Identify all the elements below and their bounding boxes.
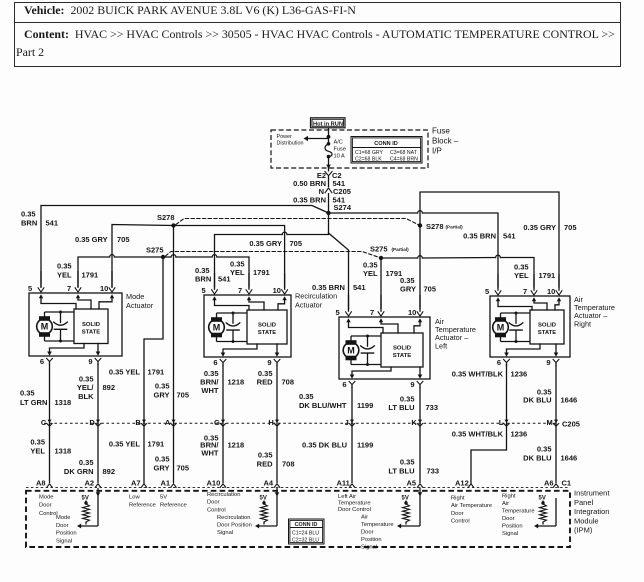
solid state module Recirculation Actuator U2 (247, 310, 287, 344)
svg-text:Control: Control (207, 507, 226, 513)
svg-text:GRY: GRY (154, 464, 170, 473)
svg-text:S274: S274 (334, 203, 352, 212)
connector N / C205 symbol (319, 187, 351, 196)
label 0.35 YEL 1791 (AT-Left pin 7) (363, 261, 402, 279)
svg-text:C2=32 BLU: C2=32 BLU (292, 538, 319, 544)
svg-text:STATE: STATE (538, 330, 557, 336)
IPM dashed box (26, 491, 570, 547)
svg-text:1791: 1791 (386, 269, 403, 278)
svg-text:Door: Door (39, 503, 52, 509)
svg-text:Actuator: Actuator (295, 300, 323, 309)
svg-text:Recirculation: Recirculation (207, 492, 241, 498)
svg-text:STATE: STATE (393, 353, 412, 359)
svg-text:C1=68 GRY: C1=68 GRY (355, 150, 384, 156)
motor supply rails Air Temperature Actuator - Left U3 (351, 336, 381, 365)
IPM connector face dashed line (26, 486, 570, 488)
labels wire M below C205 (523, 445, 577, 463)
connector C205 cavity L (499, 418, 509, 427)
pin 5 of Air Temperature Actuator - Right U4 (485, 274, 501, 301)
connector C205 cavity H (268, 418, 279, 427)
wire M AT-Right pin9 to IPM A6 (555, 365, 557, 483)
actuator box Recirculation Actuator U2 (204, 295, 291, 357)
conn id table (IPM) (289, 519, 325, 544)
svg-text:Recirculation: Recirculation (295, 292, 337, 301)
wire from Hot in RUN into fuse block (327, 128, 331, 144)
pin 9 of Air Temperature Actuator - Left U3 (410, 375, 423, 390)
svg-text:A4: A4 (264, 479, 274, 488)
svg-text:(Partial): (Partial) (446, 225, 464, 230)
pin 6 of Air Temperature Actuator - Right U4 (497, 353, 510, 368)
wire K AT-Left pin9 to IPM A5 (419, 387, 421, 483)
power distribution arrow (304, 136, 329, 141)
svg-text:Temperature: Temperature (502, 509, 535, 515)
svg-text:Air Temperature: Air Temperature (451, 503, 492, 509)
capacitor Mode Actuator U1 (54, 311, 68, 343)
svg-text:9: 9 (267, 358, 271, 367)
svg-text:0.35: 0.35 (258, 451, 273, 460)
svg-text:YEL: YEL (57, 271, 72, 280)
IPM pin A10 (207, 479, 226, 488)
svg-text:SOLID: SOLID (538, 323, 556, 329)
wire L AT-Right pin6 to IPM A12 (471, 365, 507, 483)
svg-text:0.35: 0.35 (299, 392, 314, 401)
wires solid state to bottom pins Mode Actuator U1 (50, 344, 99, 353)
IPM function label at 361 (361, 515, 394, 551)
svg-text:7: 7 (238, 286, 242, 295)
svg-text:5: 5 (202, 286, 206, 295)
labels wire L above C205 (452, 370, 527, 379)
capacitor Air Temperature Actuator - Left U3 (361, 335, 375, 367)
splice S278 (157, 213, 176, 228)
labels wire L below C205 (452, 430, 527, 439)
svg-text:Fuse: Fuse (432, 127, 450, 136)
svg-text:GRY: GRY (400, 285, 416, 294)
svg-text:BLK: BLK (78, 392, 94, 401)
svg-text:(IPM): (IPM) (574, 526, 593, 535)
wire GRY 705 S278 to Mode pin 10 (112, 225, 174, 288)
label Mode Actuator U1 (126, 292, 154, 310)
svg-text:0.35 YEL: 0.35 YEL (109, 368, 141, 377)
svg-text:Signal: Signal (502, 531, 518, 537)
splice S278 (Partial) (418, 222, 463, 231)
svg-text:YEL: YEL (30, 447, 45, 456)
svg-text:6: 6 (213, 358, 217, 367)
svg-text:K: K (411, 418, 417, 427)
svg-text:SOLID: SOLID (393, 346, 411, 352)
IPM pin A7 (131, 479, 147, 488)
svg-text:10: 10 (100, 284, 108, 293)
wire G Recirculation pin6 to IPM A10 (222, 365, 224, 483)
svg-text:Position: Position (502, 524, 523, 530)
svg-text:S278: S278 (157, 213, 175, 222)
svg-text:5V: 5V (82, 496, 89, 502)
svg-text:G: G (214, 418, 220, 427)
svg-text:705: 705 (177, 464, 190, 473)
svg-text:YEL: YEL (230, 268, 245, 277)
svg-text:5V: 5V (402, 496, 409, 502)
svg-text:STATE: STATE (82, 329, 101, 335)
svg-text:Control: Control (39, 511, 58, 517)
labels wire J above C205 (299, 392, 373, 410)
pin 7 of Mode Actuator U1 (67, 271, 81, 298)
connector C205 cavity G (214, 418, 226, 427)
svg-text:1646: 1646 (561, 396, 578, 405)
connector C205 cavity K (411, 418, 422, 427)
actuator box Air Temperature Actuator - Left U3 (339, 317, 430, 379)
svg-text:YEL: YEL (363, 269, 378, 278)
svg-text:(Partial): (Partial) (392, 247, 410, 252)
wire D Mode pin9 to IPM A2 (97, 364, 99, 483)
resistor 5V R-A2 mode position (82, 496, 90, 525)
label 0.50 BRN 541 (293, 179, 345, 188)
actuator box Mode Actuator U1 (29, 293, 122, 356)
label Air Temperature Actuator - Left U3 (435, 317, 476, 350)
motor M Recirculation Actuator U2 (209, 313, 225, 342)
wires pins to solid state Recirculation Actuator U2 (215, 300, 285, 310)
svg-text:708: 708 (282, 460, 295, 469)
labels wire D above C205 (77, 375, 115, 402)
connector C205 dashed line (44, 422, 556, 424)
motor supply rails Mode Actuator U1 (45, 312, 75, 341)
svg-text:M: M (497, 322, 505, 332)
svg-text:Temperature: Temperature (361, 522, 394, 528)
wires solid state to bottom pins Recirculation Actuator U2 (223, 344, 277, 353)
svg-text:541: 541 (218, 275, 231, 284)
labels wire H below C205 (257, 451, 295, 469)
motor supply rails Recirculation Actuator U2 (217, 313, 248, 342)
resistor 5V R-A4 recirc position (260, 496, 268, 525)
svg-text:Right: Right (502, 494, 516, 500)
svg-text:Integration: Integration (574, 507, 609, 516)
svg-text:SOLID: SOLID (258, 323, 276, 329)
svg-text:C: C (41, 418, 47, 427)
svg-text:708: 708 (282, 378, 295, 387)
svg-text:0.35 YEL: 0.35 YEL (109, 440, 141, 449)
svg-text:1791: 1791 (539, 271, 556, 280)
svg-text:10: 10 (547, 287, 555, 296)
label 0.35 BRN 541 (Mode pin 5) (21, 210, 58, 228)
labels wire C below C205 (30, 438, 71, 456)
labels wire G above C205 (200, 369, 244, 395)
svg-text:Module: Module (574, 516, 599, 525)
pin 5 of Mode Actuator U1 (28, 271, 44, 298)
svg-text:Right: Right (574, 319, 591, 328)
svg-text:RED: RED (257, 378, 273, 387)
labels wire K above C205 (388, 395, 438, 413)
svg-text:Hot in RUN: Hot in RUN (313, 121, 343, 127)
svg-text:C2=68 BLK: C2=68 BLK (355, 156, 382, 162)
svg-text:0.35 GRY: 0.35 GRY (523, 223, 556, 232)
svg-text:1218: 1218 (228, 378, 245, 387)
svg-text:A: A (165, 418, 171, 427)
wire BRN 541 branch to AT-Right pin 5 (329, 211, 499, 287)
svg-text:6: 6 (342, 380, 346, 389)
label Recirculation Actuator U2 (295, 292, 337, 310)
fuse block dashed box (271, 130, 428, 168)
svg-text:C1: C1 (562, 479, 572, 488)
svg-text:Actuator: Actuator (126, 301, 154, 310)
label Air Temperature Actuator - Right U4 (574, 295, 615, 328)
pin 10 of Air Temperature Actuator - Right U4 (547, 274, 562, 301)
svg-text:M: M (213, 322, 221, 332)
pin 7 of Recirculation Actuator U2 (238, 273, 252, 300)
svg-text:DK GRN: DK GRN (64, 467, 94, 476)
fuse block label Fuse Block - I/P (432, 127, 459, 156)
svg-text:705: 705 (290, 239, 303, 248)
wire YEL 1791 S275(Partial) to AT-Left pin 7 (380, 258, 382, 309)
pin 9 of Air Temperature Actuator - Right U4 (546, 353, 559, 368)
label 0.35 BRN 541 (AT-Left pin 5) (312, 283, 366, 292)
svg-text:WHT: WHT (201, 449, 218, 458)
fuse F10 A/C 10A symbol (325, 142, 332, 158)
svg-text:0.35: 0.35 (155, 382, 170, 391)
IPM function label at 451 (451, 496, 492, 525)
connector C205 cavity B (135, 418, 146, 427)
svg-text:YEL: YEL (514, 271, 529, 280)
labels wire G below C205 (200, 434, 244, 458)
solid state module Mode Actuator U1 (74, 309, 108, 344)
motor supply rails Air Temperature Actuator - Right U4 (501, 313, 531, 342)
connector C205 cavity M (547, 418, 559, 427)
pin 6 of Mode Actuator U1 (40, 352, 53, 367)
svg-text:Signal: Signal (361, 545, 377, 551)
svg-text:Signal: Signal (56, 538, 72, 544)
svg-text:0.35: 0.35 (20, 389, 35, 398)
svg-text:0.35 GRY: 0.35 GRY (75, 235, 108, 244)
label 0.35 GRY 705 (Mode pin 10) (75, 235, 130, 244)
svg-text:1646: 1646 (561, 454, 578, 463)
svg-text:Air: Air (361, 515, 368, 521)
wire YEL 1791 S275 to Mode pin 7 (78, 255, 163, 287)
splice S275 (146, 246, 165, 260)
label Power Distribution (277, 134, 304, 147)
svg-text:B: B (135, 418, 141, 427)
svg-text:CONN ID: CONN ID (295, 522, 318, 528)
solid state module Air Temperature Actuator - Left U3 (381, 333, 423, 367)
svg-text:D: D (89, 418, 95, 427)
svg-text:Low: Low (129, 495, 140, 501)
svg-text:Control: Control (451, 519, 470, 525)
svg-text:Temperature: Temperature (338, 500, 371, 506)
svg-text:0.35: 0.35 (79, 458, 94, 467)
svg-text:S275: S275 (146, 246, 164, 255)
svg-text:705: 705 (177, 391, 190, 400)
IPM pin A1 (161, 479, 177, 488)
svg-text:Door: Door (207, 500, 220, 506)
connector C205 cavity J (345, 418, 355, 427)
svg-text:0.35 DK BLU: 0.35 DK BLU (302, 441, 347, 450)
label C1 (IPM connector) (562, 479, 572, 488)
wire BRN 541 branch to Recirculation pin 5 (215, 213, 329, 287)
dashed link S278 to S278(Partial) (176, 219, 420, 226)
svg-text:Door: Door (56, 523, 69, 529)
svg-text:7: 7 (67, 284, 71, 293)
svg-text:541: 541 (503, 232, 516, 241)
svg-text:DK BLU: DK BLU (523, 396, 551, 405)
svg-text:Reference: Reference (160, 502, 187, 508)
svg-text:M: M (41, 322, 49, 332)
svg-text:0.35: 0.35 (21, 210, 36, 219)
svg-text:0.35: 0.35 (155, 455, 170, 464)
wire fuse output to connector C2 (326, 157, 331, 172)
svg-text:STATE: STATE (258, 330, 277, 336)
svg-text:Mode: Mode (126, 292, 144, 301)
capacitor Recirculation Actuator U2 (226, 312, 240, 344)
wires pins to solid state Air Temperature Actuator - Right U4 (498, 301, 559, 310)
resistor 5V R-A6 right position (539, 496, 547, 525)
label 0.35 BRN 541 (Recirculation pin 5) (195, 266, 231, 284)
svg-text:I/P: I/P (432, 147, 442, 156)
pin 7 of Air Temperature Actuator - Left U3 (370, 295, 384, 322)
conn id table (fuse block) (351, 137, 422, 164)
wire YEL 1791 S275(Partial) to AT-Right pin 7 (381, 255, 534, 287)
svg-text:C205: C205 (562, 420, 580, 429)
wire BRN 541 bus to Mode actuator pin 5 (41, 206, 329, 288)
pin 6 of Recirculation Actuator U2 (213, 353, 226, 368)
motor M Mode Actuator U1 (37, 312, 53, 341)
svg-text:10: 10 (273, 286, 281, 295)
svg-text:0.35: 0.35 (400, 458, 415, 467)
wire 0.35 BRN 541 segment to S274 (328, 193, 330, 213)
svg-text:SOLID: SOLID (82, 322, 100, 328)
svg-text:6: 6 (497, 358, 501, 367)
labels wire C above C205 (20, 389, 71, 408)
svg-text:A10: A10 (207, 479, 221, 488)
svg-text:705: 705 (117, 235, 130, 244)
wire BRN 541 branch to AT-Left pin 5 (329, 233, 349, 309)
svg-text:892: 892 (103, 383, 116, 392)
label 0.35 GRY 705 (AT-Right pin 10) (523, 223, 576, 232)
svg-text:9: 9 (546, 358, 550, 367)
wiper arrow R-A6 right position (534, 498, 556, 528)
svg-text:Right: Right (451, 496, 465, 502)
svg-text:Fuse: Fuse (334, 147, 346, 153)
svg-text:1791: 1791 (148, 440, 165, 449)
svg-text:705: 705 (424, 285, 437, 294)
svg-text:Door: Door (361, 530, 374, 536)
svg-text:BRN: BRN (195, 275, 211, 284)
svg-text:10 A: 10 A (334, 154, 345, 160)
svg-text:1318: 1318 (55, 447, 72, 456)
label A/C Fuse 10 A (334, 140, 346, 160)
svg-text:Distribution: Distribution (277, 141, 304, 147)
svg-text:BRN: BRN (21, 219, 37, 228)
svg-text:Left Air: Left Air (338, 494, 356, 500)
svg-text:J: J (345, 418, 349, 427)
label 0.35 GRY 705 (AT-Left pin 10) (400, 276, 436, 294)
label C205 (562, 420, 580, 429)
svg-text:0.35: 0.35 (537, 445, 552, 454)
label 0.35 YEL 1791 (Mode pin 7) (57, 262, 98, 280)
svg-text:Mode: Mode (56, 515, 71, 521)
splice S274 (326, 203, 352, 215)
svg-text:1791: 1791 (253, 268, 270, 277)
pin 10 of Air Temperature Actuator - Left U3 (408, 295, 423, 322)
pin 7 of Air Temperature Actuator - Right U4 (523, 274, 537, 301)
svg-text:5V: 5V (539, 496, 546, 502)
svg-text:C4=68 BRN: C4=68 BRN (390, 156, 418, 162)
svg-text:0.35: 0.35 (30, 438, 45, 447)
svg-text:5: 5 (28, 284, 32, 293)
svg-text:Power: Power (277, 134, 292, 140)
labels wire M above C205 (523, 388, 577, 405)
svg-text:H: H (268, 418, 273, 427)
labels wire H above C205 (257, 369, 294, 387)
svg-text:RED: RED (257, 460, 273, 469)
svg-text:0.35 WHT/BLK: 0.35 WHT/BLK (452, 370, 504, 379)
IPM function label at 207 (207, 492, 241, 513)
svg-text:1318: 1318 (55, 398, 72, 407)
svg-text:Mode: Mode (39, 495, 54, 501)
svg-text:1199: 1199 (357, 401, 373, 410)
svg-text:M: M (547, 418, 553, 427)
svg-text:A6: A6 (544, 479, 554, 488)
IPM function label at 56 (56, 515, 77, 544)
connector C205 cavity D (89, 418, 100, 427)
IPM pin A4 (264, 479, 280, 499)
svg-text:541: 541 (46, 219, 59, 228)
svg-text:Position: Position (361, 537, 382, 543)
dashed link S275 to S275(Partial) (166, 252, 382, 259)
labels wire A above C205 (154, 382, 190, 400)
IPM pin A11 (337, 479, 355, 488)
pin 9 of Recirculation Actuator U2 (267, 353, 280, 368)
label 0.35 GRY 705 (Recirculation pin 10) (249, 239, 302, 248)
svg-text:C3=68 NAT: C3=68 NAT (390, 150, 418, 156)
wires solid state to bottom pins Air Temperature Actuator - Left U3 (352, 367, 420, 375)
labels wire K below C205 (388, 458, 439, 476)
svg-text:S278: S278 (426, 222, 444, 231)
labels wire J below C205 (302, 441, 373, 450)
wire C Mode pin6 to IPM A8 (49, 364, 51, 483)
svg-text:A8: A8 (36, 479, 46, 488)
wires pins to solid state Mode Actuator U1 (41, 298, 112, 309)
IPM pin A12 (455, 479, 474, 488)
solid state module Air Temperature Actuator - Right U4 (530, 310, 564, 344)
svg-text:DK BLU/WHT: DK BLU/WHT (299, 401, 347, 410)
svg-text:1218: 1218 (228, 441, 245, 450)
motor M Air Temperature Actuator - Right U4 (493, 313, 509, 342)
svg-text:YEL/: YEL/ (77, 383, 95, 392)
connector C205 cavity A (165, 418, 176, 427)
IPM pin A5 (407, 479, 423, 499)
label Instrument Panel Integration Module (IPM) (574, 489, 610, 535)
resistor 5V R-A5 left position (402, 496, 410, 525)
svg-text:1236: 1236 (511, 370, 528, 379)
IPM pin A2 (85, 479, 101, 499)
labels wire D below C205 (64, 458, 115, 476)
svg-text:733: 733 (427, 467, 440, 476)
svg-text:Air: Air (502, 501, 509, 507)
wire YEL 1791 S275 to Recirculation pin 7 (163, 255, 249, 287)
wiper arrow R-A5 left position (397, 498, 420, 528)
svg-text:0.35 BRN: 0.35 BRN (293, 196, 326, 205)
pin 5 of Air Temperature Actuator - Left U3 (336, 295, 352, 322)
header vehicle box (14, 2, 621, 23)
connector E2/C2 symbol (317, 171, 342, 180)
label 0.35 YEL 1791 (Recirculation pin 7) (230, 260, 270, 278)
IPM function label at 160 (160, 495, 187, 509)
svg-text:0.35: 0.35 (57, 262, 72, 271)
IPM function label at 338 (338, 494, 371, 513)
svg-text:Door Control: Door Control (338, 507, 371, 513)
svg-text:733: 733 (426, 403, 439, 412)
svg-text:Panel: Panel (574, 498, 594, 507)
svg-text:Recirculation: Recirculation (217, 515, 251, 521)
actuator box Air Temperature Actuator - Right U4 (490, 296, 570, 357)
svg-text:5V: 5V (160, 495, 167, 501)
wiper arrow R-A4 recirc position (255, 498, 277, 528)
